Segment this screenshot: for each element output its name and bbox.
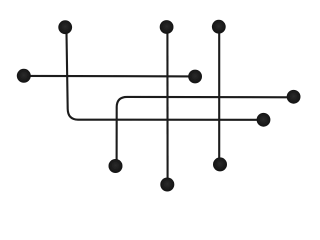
node A (top-left dot) [58, 20, 72, 34]
node F (far-right dot, end of wire W5) [287, 90, 301, 104]
node E (center dot, end of wire W2) [188, 70, 202, 84]
node J (bottom-right dot) [213, 157, 227, 171]
wire W5 (from node H up, corner, right to node F) [117, 97, 294, 166]
node C (top-right dot) [212, 20, 226, 34]
node D (left dot) [17, 69, 31, 83]
node B (top-middle dot) [160, 20, 174, 34]
node H (bottom-left dot) [109, 159, 123, 173]
wire W2 (horizontal from node D to node E) [24, 75, 195, 78]
wire W4 (vertical from node C to node J) [218, 27, 220, 165]
wire W1 (from node A down, corner, right to node G) [66, 27, 263, 120]
wire W3 (vertical from node B to node I) [166, 27, 168, 185]
node G (right dot, end of wire W1) [257, 113, 271, 127]
node I (bottom-middle dot) [160, 178, 174, 192]
